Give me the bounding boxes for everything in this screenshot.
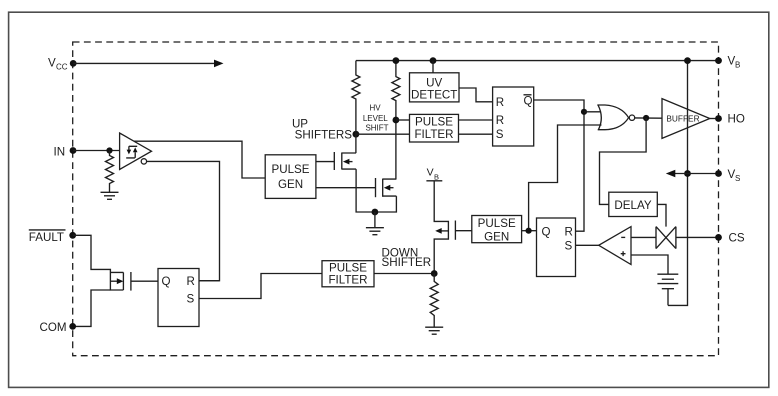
wire junction to pulse filter F2 upper bbox=[396, 119, 410, 121]
node VB rail junction bbox=[684, 57, 691, 64]
wire up shifter sources to common rail bbox=[356, 169, 396, 212]
wire rail to ground bbox=[374, 212, 376, 228]
wire up-shifters junction to pulse filter F2 lower bbox=[356, 133, 410, 135]
wire F2 upper output to latch U3 R bbox=[459, 119, 493, 121]
svg-text:UV: UV bbox=[426, 77, 442, 90]
wire IN to input stage bbox=[73, 150, 120, 152]
wire VCC arrow bbox=[73, 60, 223, 68]
transistor Q2 (up shifter 1) bbox=[316, 152, 356, 170]
svg-text:R: R bbox=[496, 114, 504, 127]
wire F2 lower output to latch U3 S bbox=[459, 133, 493, 135]
node VS junction bbox=[684, 170, 691, 177]
delay box bbox=[609, 192, 658, 216]
wire UV detect to latch U3 R bbox=[459, 88, 493, 102]
comparator U5 bbox=[599, 227, 631, 265]
node IN junction bbox=[106, 147, 112, 153]
pin VS bbox=[715, 168, 740, 183]
node source rail bbox=[372, 209, 379, 216]
latch U2 (fault RS latch) bbox=[158, 269, 199, 327]
wire VS to pin bbox=[688, 173, 719, 175]
ground (IN pulldown) bbox=[101, 192, 119, 199]
ground (up shifter sources) bbox=[366, 228, 384, 235]
wire rail to UV detect bbox=[432, 61, 434, 73]
buffer U4 bbox=[662, 99, 710, 139]
wire U1 top output to pulse gen bbox=[134, 141, 265, 178]
pulse gen G1 (up shifters) bbox=[265, 155, 316, 199]
node down shifter junction bbox=[431, 270, 438, 277]
pulse filter F2 (high side) bbox=[410, 114, 459, 142]
svg-text:R: R bbox=[187, 275, 195, 288]
resistor R1 (IN pulldown) bbox=[106, 151, 114, 193]
svg-text:V: V bbox=[48, 57, 56, 70]
svg-text:V: V bbox=[427, 167, 434, 179]
node R3 top on rail bbox=[393, 57, 400, 64]
svg-text:R: R bbox=[565, 226, 573, 239]
node R3 bottom junction bbox=[393, 117, 400, 124]
wire comparator output to latch U6 S bbox=[576, 244, 599, 246]
svg-text:S: S bbox=[496, 128, 504, 141]
svg-text:LEVEL: LEVEL bbox=[363, 114, 388, 123]
svg-text:S: S bbox=[187, 293, 195, 306]
svg-text:Q: Q bbox=[162, 275, 171, 288]
wire comparator minus input bbox=[631, 236, 656, 238]
resistor R2 (HV level shift left) bbox=[352, 61, 360, 153]
wire Q1 source to COM bbox=[73, 290, 111, 326]
wire NOR output feedback to delay bbox=[600, 118, 647, 204]
wire delay output to switch bbox=[657, 204, 666, 226]
svg-text:PULSE: PULSE bbox=[271, 163, 309, 176]
svg-text:COM: COM bbox=[40, 321, 67, 334]
wire VB to VS vertical bbox=[668, 61, 688, 306]
label HV LEVEL SHIFT bbox=[363, 104, 389, 133]
pin VCC bbox=[48, 57, 77, 72]
node NOR top input junction bbox=[581, 109, 587, 115]
node up shifters junction bbox=[353, 131, 360, 138]
svg-text:HO: HO bbox=[728, 113, 745, 126]
svg-text:R: R bbox=[496, 96, 504, 109]
NOR gate G3 bbox=[597, 105, 634, 130]
wire VS arrow bbox=[666, 170, 688, 178]
svg-text:B: B bbox=[735, 61, 740, 70]
wire U2 R input bbox=[199, 280, 220, 282]
svg-text:FILTER: FILTER bbox=[328, 274, 367, 287]
svg-text:Q: Q bbox=[542, 226, 551, 239]
svg-text:CS: CS bbox=[729, 232, 745, 245]
svg-text:DETECT: DETECT bbox=[411, 89, 457, 102]
op-amp U1 (Schmitt input buffer) bbox=[120, 133, 152, 170]
wire G2 output to latch U6 Q bbox=[522, 230, 537, 232]
node UV tap on rail bbox=[430, 57, 437, 64]
svg-text:BUFFER: BUFFER bbox=[666, 113, 699, 123]
wire switch to pin CS bbox=[676, 236, 719, 238]
transistor Q3 (up shifter 2) bbox=[316, 178, 397, 197]
wire FAULT to Q1 drain bbox=[73, 235, 124, 290]
svg-text:GEN: GEN bbox=[278, 178, 303, 191]
svg-text:FAULT: FAULT bbox=[29, 231, 64, 244]
wire latch U6 Q to NOR bottom input bbox=[529, 125, 602, 231]
svg-text:SHIFT: SHIFT bbox=[365, 124, 388, 133]
resistor R3 (HV level shift right) bbox=[392, 61, 400, 180]
wire comparator plus input to battery bbox=[631, 255, 668, 274]
svg-text:IN: IN bbox=[54, 146, 66, 159]
ground (down shifter) bbox=[425, 327, 443, 334]
wire U3 Qbar to NOR and latch U6 R bbox=[534, 100, 584, 231]
label DOWN SHIFTER bbox=[382, 247, 432, 270]
resistor R4 (down shifter) bbox=[430, 274, 438, 328]
pin HO bbox=[715, 113, 745, 126]
svg-text:Q: Q bbox=[524, 95, 533, 108]
pin FAULT bbox=[29, 230, 76, 244]
pulse filter F1 (low side) bbox=[322, 261, 374, 287]
transistor Q4 (down shifter) bbox=[434, 181, 472, 274]
svg-text:S: S bbox=[565, 240, 573, 253]
svg-text:SHIFTERS: SHIFTERS bbox=[295, 129, 353, 142]
wire U2 S to pulse filter F1 bbox=[199, 274, 322, 299]
svg-text:DELAY: DELAY bbox=[614, 199, 651, 212]
top VB rail bbox=[356, 60, 719, 62]
svg-text:HV: HV bbox=[369, 104, 381, 113]
label UP SHIFTERS bbox=[292, 118, 352, 142]
pin COM bbox=[40, 321, 77, 334]
pin CS bbox=[715, 232, 745, 245]
switch SW1 (current sense blank switch) bbox=[656, 227, 676, 249]
wire F1 output to down shifter bbox=[374, 273, 434, 275]
svg-text:FILTER: FILTER bbox=[414, 128, 453, 141]
pulse gen G2 (down shifter) bbox=[472, 216, 522, 244]
pin IN bbox=[54, 146, 77, 159]
wire NOR top input bbox=[584, 111, 601, 113]
battery BT1 (CS threshold reference) bbox=[657, 274, 678, 289]
label VB (down shifter supply) bbox=[426, 167, 442, 182]
UV detect box bbox=[410, 73, 460, 102]
wire battery bottom to VS line bbox=[667, 289, 669, 306]
wire NOR output to buffer bbox=[635, 117, 662, 119]
svg-text:GEN: GEN bbox=[484, 230, 509, 243]
svg-text:PULSE: PULSE bbox=[415, 116, 453, 129]
latch U6 (current sense RS latch) bbox=[537, 218, 576, 277]
node NOR output junction bbox=[643, 115, 649, 121]
IC boundary (dashed) bbox=[73, 42, 719, 356]
pin VB bbox=[715, 55, 740, 70]
wire Q1 gate to latch U2 bbox=[131, 280, 158, 282]
wire buffer output to HO bbox=[710, 118, 719, 120]
svg-text:SHIFTER: SHIFTER bbox=[382, 256, 432, 269]
svg-text:PULSE: PULSE bbox=[478, 217, 516, 230]
svg-text:CC: CC bbox=[56, 63, 68, 72]
wire U1 inverted output down to latch R bbox=[146, 161, 219, 280]
svg-text:S: S bbox=[735, 174, 740, 183]
node G2 latch junction bbox=[526, 228, 532, 234]
transistor Q1 (fault open-drain MOSFET) bbox=[110, 272, 130, 291]
latch U3 (high side RS latch) bbox=[493, 87, 534, 146]
